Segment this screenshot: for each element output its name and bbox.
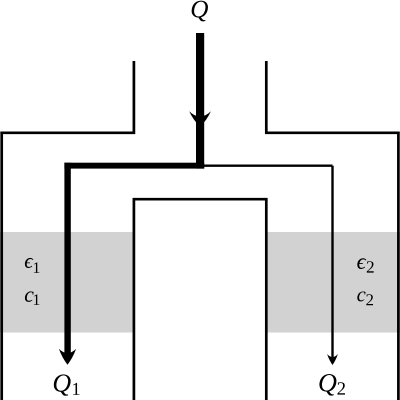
flow Q1: thick vertical shaft [64, 163, 70, 356]
inner block right wall [265, 198, 268, 400]
flow split: thick horizontal branch to left [64, 163, 204, 169]
flow Q2: thin vertical shaft [331, 166, 333, 359]
flow split: thin horizontal branch to right [200, 164, 333, 166]
porous band right (epsilon2 region) [265, 232, 400, 333]
label c2 (right band concentration): letter c [357, 292, 365, 302]
label Q1: subscript 1 [73, 383, 79, 395]
label epsilon2: subscript 2 [367, 261, 374, 272]
container top-left edge [0, 131, 135, 134]
inner block left wall [133, 198, 136, 400]
flow Q2: arrowhead [327, 354, 338, 365]
container outer right wall [397, 132, 400, 400]
inlet chimney right wall [265, 61, 268, 134]
flow Q1: arrowhead [59, 349, 76, 365]
label Q (inlet flow) [192, 1, 208, 22]
label Q2: subscript 2 [338, 382, 346, 394]
inlet flow Q: thick vertical shaft [196, 33, 204, 169]
label epsilon1: subscript 1 [34, 262, 40, 273]
label c1: subscript 1 [34, 294, 40, 305]
label Q2 (right outlet flow): letter Q [319, 374, 336, 396]
inlet chimney left wall [133, 61, 136, 134]
label epsilon1 (left band porosity): epsilon [25, 258, 34, 268]
label c1 (left band concentration): letter c [25, 291, 34, 302]
inlet flow Q: mid arrowhead [189, 111, 211, 126]
label c2: subscript 2 [366, 294, 373, 305]
label Q1 (left outlet flow): letter Q [54, 374, 71, 395]
container top-right edge [265, 131, 400, 134]
label epsilon2 (right band porosity): epsilon [357, 258, 366, 269]
porous band left (epsilon1 region) [0, 232, 134, 333]
container outer left wall [0, 132, 3, 400]
inner block top edge [133, 198, 268, 201]
